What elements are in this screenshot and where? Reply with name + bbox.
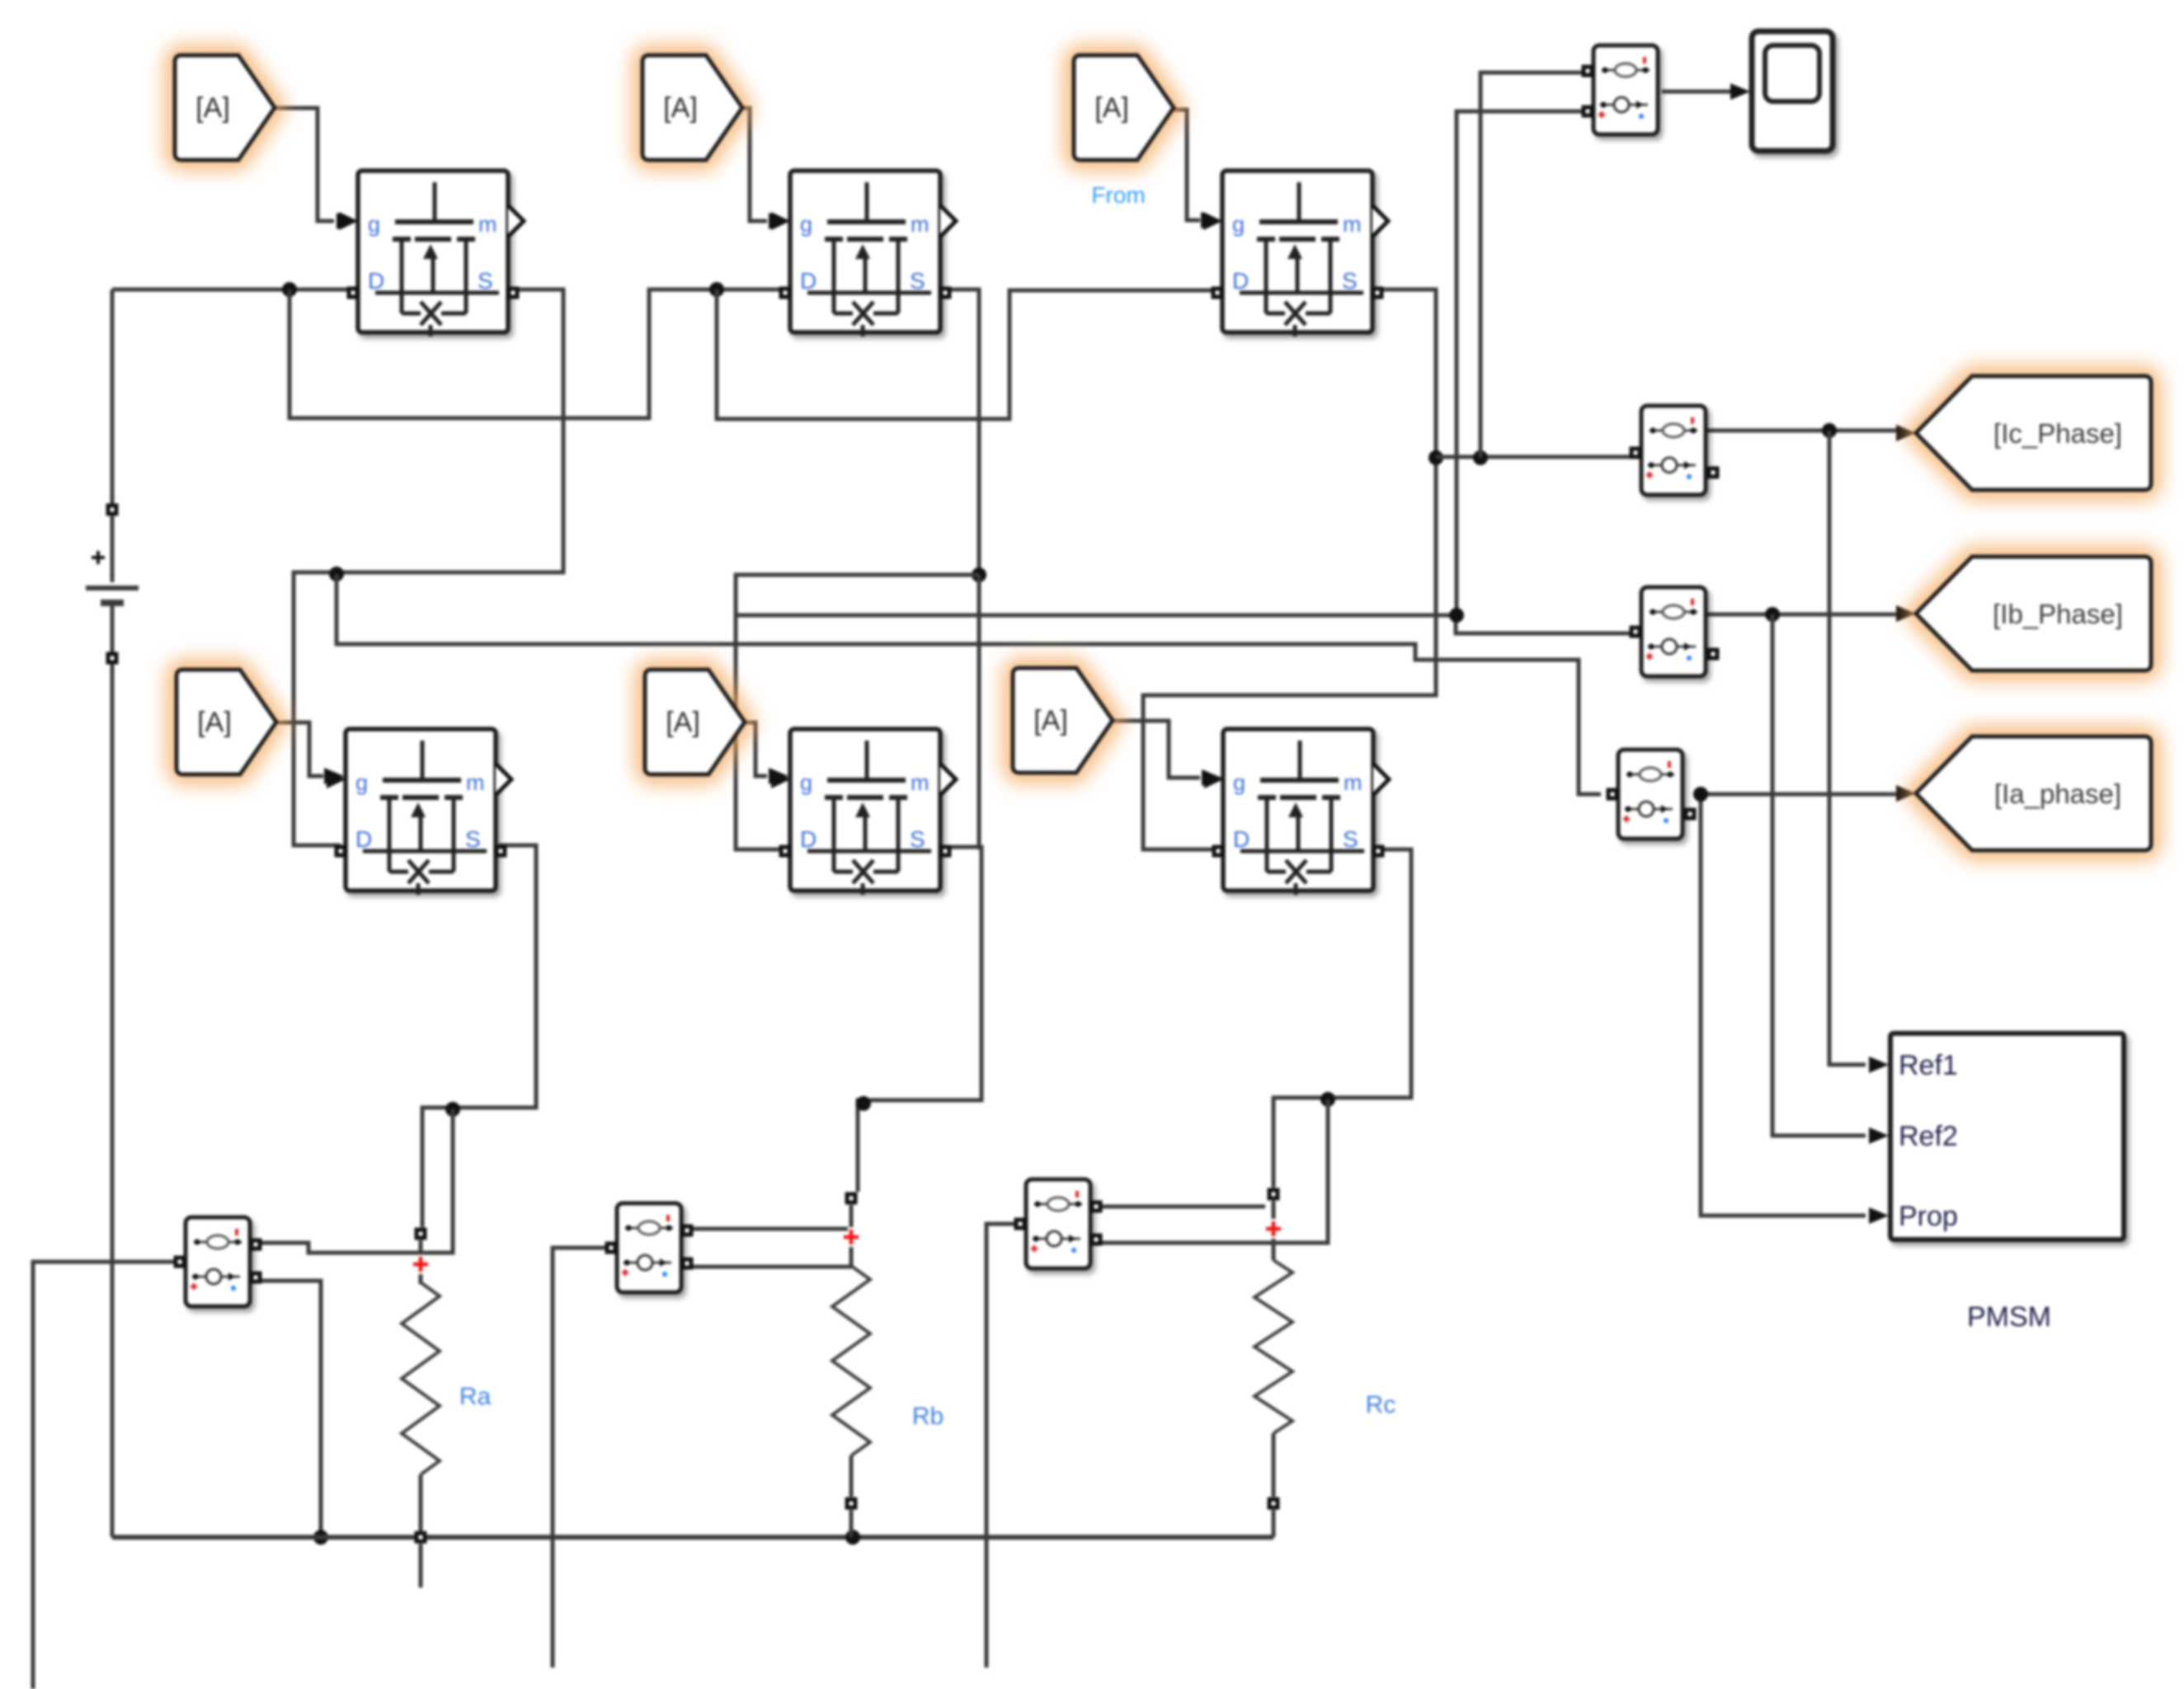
wire From tag A6 to g6 [1113,721,1200,778]
wire From tag A4 to g4 [276,722,323,776]
battery DC source V_dc [111,289,115,504]
svg-text:PMSM: PMSM [1967,1301,2051,1333]
svg-text:S: S [1343,826,1358,852]
svg-text:g: g [800,212,812,237]
svg-text:g: g [368,212,380,237]
svg-text:D: D [1232,268,1249,294]
wire Ref1 [1829,430,1866,1065]
wire phase B branch to Ib measurement [736,615,1630,633]
svg-text:m: m [478,212,497,237]
from tag [A] 2 [642,55,742,160]
resistor Ra zigzag [402,1282,440,1475]
goto tag Ib_Phase [1916,557,2151,670]
from tag [A] 6 [1013,668,1113,773]
resistor Rb [845,1193,858,1205]
wire Ia to goto tag [1706,793,1897,797]
from tag [A] 5 [645,670,745,774]
wire Ref2 [1772,614,1866,1136]
measurement Vb [617,1203,681,1292]
svg-text:Ref2: Ref2 [1899,1121,1958,1152]
wire S5 to Rb [858,847,981,1192]
wire From tag A2 to g2 [742,108,767,221]
wire VM-c plus tap [1094,1205,1265,1209]
wire From tag A5 to g5 [745,722,767,776]
svg-text:Rc: Rc [1366,1391,1396,1418]
svg-text:S: S [910,826,925,852]
svg-text:[A]: [A] [666,707,700,738]
wire S6 to Rc [1273,849,1411,1188]
resistor Rc zigzag [1254,1260,1292,1433]
goto tag Ia_phase [1916,736,2151,850]
wire Ic to goto tag [1707,429,1897,433]
wire VM-a input [33,1262,180,1689]
mosfet Q6 (phase C low side) [1204,729,1389,895]
measurement Vc [1026,1179,1090,1268]
PMSM block [1890,1033,2124,1240]
svg-text:D: D [1233,826,1250,852]
wire VM-a minus to bus [256,1281,321,1537]
wire S2 phase B [945,289,979,575]
svg-text:m: m [466,770,485,795]
mosfet Q2 (phase B high side) [771,171,956,336]
svg-text:From: From [1091,182,1145,208]
wire VM-b taps to Rb [687,1227,848,1231]
wire VM-c input [986,1224,1020,1668]
svg-text:[A]: [A] [663,92,698,124]
svg-text:S: S [465,826,481,852]
svg-text:g: g [1233,770,1245,795]
resistor Rc [1268,1188,1280,1201]
measurement Ia [1618,750,1683,839]
wire S1 phase A [294,289,563,845]
wire From tag A3 to g3 [1174,110,1200,220]
voltage measurement (scope) [1593,45,1658,134]
wire D bus row1 [112,288,350,292]
svg-text:m: m [911,212,930,237]
wire ground bus [112,1535,1273,1540]
svg-text:[A]: [A] [1033,705,1068,736]
from tag [A] 1 [175,55,275,160]
svg-text:m: m [1344,770,1363,795]
goto tag Ic_Phase [1916,376,2151,490]
svg-text:[A]: [A] [195,92,230,124]
wire VM-b input [553,1248,611,1668]
svg-text:Rb: Rb [912,1403,944,1430]
mosfet Q5 (phase B low side) [771,729,956,895]
wire scope input [1662,90,1732,94]
from tag [A] 3 [1074,55,1174,160]
scope block [1752,31,1833,151]
from tag [A] 4 [177,670,276,774]
svg-text:m: m [911,770,930,795]
svg-text:D: D [355,826,372,852]
svg-text:[A]: [A] [197,707,232,738]
mosfet Q3 (phase C high side) [1203,171,1388,336]
wire phase A branch to measurements [337,574,1601,794]
measurement Ib [1641,587,1706,676]
svg-text:m: m [1343,212,1362,237]
mosfet Q4 (phase A low side) [327,729,511,895]
resistor Rb zigzag [832,1266,870,1456]
wire Ib to goto tag [1707,613,1897,617]
svg-text:Ref1: Ref1 [1899,1050,1958,1081]
svg-text:D: D [800,268,817,294]
wire S3 phase C [1143,289,1436,849]
svg-text:g: g [355,770,368,795]
svg-text:[Ia_phase]: [Ia_phase] [1994,779,2121,809]
wire Prop [1701,794,1866,1216]
resistor Ra [415,1228,427,1240]
svg-text:S: S [478,268,493,294]
svg-text:D: D [368,268,384,294]
svg-text:g: g [1232,212,1245,237]
svg-text:S: S [910,268,925,294]
wire S4 to Ra [422,845,536,1227]
wire Ra measurement tap [256,1109,453,1253]
svg-text:Ra: Ra [459,1383,492,1410]
svg-text:[Ib_Phase]: [Ib_Phase] [1993,599,2123,629]
measurement Va [186,1217,250,1306]
wire scope measurement taps [1480,73,1588,458]
svg-text:D: D [800,826,817,852]
wire phase C branch to Ic measurement [1436,455,1630,459]
measurement Ic [1641,406,1706,495]
mosfet Q1 (phase A high side) [339,171,524,336]
wire S2 drop to Rb column [977,575,981,849]
wire Rc measurement tap [1097,1099,1328,1243]
svg-text:[Ic_Phase]: [Ic_Phase] [1993,418,2122,449]
svg-text:[A]: [A] [1094,92,1129,124]
svg-text:S: S [1342,268,1358,294]
svg-text:Prop: Prop [1899,1201,1958,1232]
svg-text:g: g [800,770,812,795]
wire From tag A1 to g1 [275,108,334,221]
